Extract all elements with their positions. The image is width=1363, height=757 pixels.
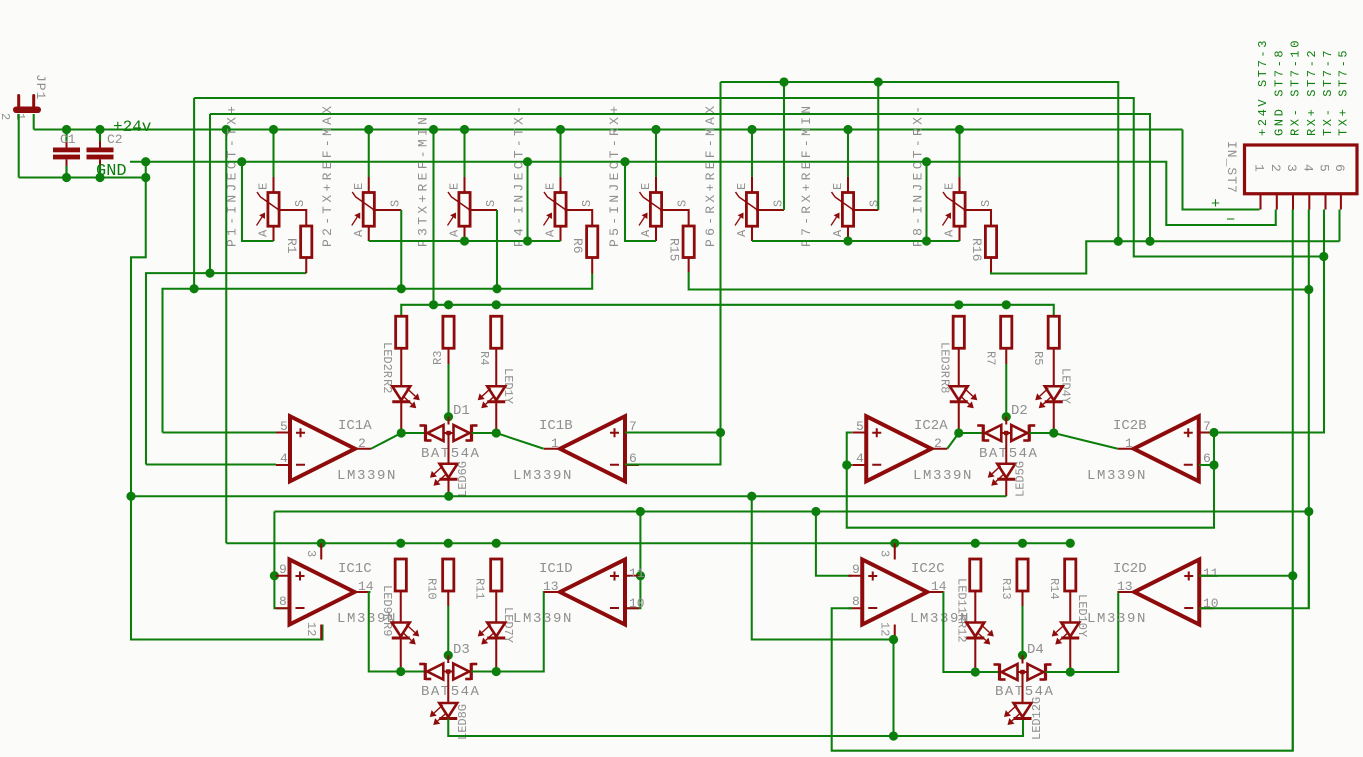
net label RX- ST7-10 [1289,38,1303,136]
junction dot D4 right node [1066,667,1075,676]
label D2 [1011,403,1028,419]
junction dot on GND rail [620,157,629,166]
wire P4.E pin stub [559,177,561,193]
svg-text:LED11R: LED11R [955,578,969,621]
svg-text:5: 5 [856,419,864,434]
svg-text:+24V ST7-3: +24V ST7-3 [1256,38,1270,136]
label IC2A [914,418,948,434]
svg-text:13: 13 [1117,579,1133,594]
dual diode D4 [994,664,1052,681]
svg-text:4: 4 [280,451,288,466]
wire P5.E to +24v rail [655,130,657,178]
comparator IC2B [1118,416,1213,481]
wire P8.E pin stub [958,177,960,193]
pin label 8 of IC2C [852,594,860,609]
wire IC2A pin4 wire [847,464,852,466]
LED LED3R [950,386,978,408]
junction dot D3 centre stub [444,651,453,660]
junction dot LED6G on GND bus [444,492,453,501]
svg-text:+: + [1211,196,1220,213]
svg-text:LED12G: LED12G [1030,697,1044,740]
wire P8.A pin stub [958,226,960,241]
pin label 2 of IC2A [934,436,942,451]
junction dot L3 R9 [396,539,405,548]
junction dot D3 right node [492,667,501,676]
pin label 14 of IC1C [358,579,374,594]
label R16 [969,238,984,261]
wire wiper bus drop to IC1B [719,82,721,433]
LED LED5G [988,464,1016,486]
wire P6.E pin stub [751,177,753,193]
wire R11 to LED7Y [495,591,497,623]
wire D4 to LED12G [1021,672,1023,703]
pin label S of P5 [676,200,690,207]
pin label S of P8 [979,200,993,207]
pin label 3 of IC1C [304,550,318,557]
comparator IC2C [848,560,943,625]
resistor R6 [587,226,598,258]
svg-text:12: 12 [878,622,892,636]
svg-text:LED2R: LED2R [380,342,394,378]
svg-text:13: 13 [543,579,559,594]
wire D1 to LED6G [447,433,449,464]
LED LED1Y [478,386,506,408]
wire P2.S drop [373,210,402,289]
wire D3 centre stub [447,655,449,663]
wire IC1C output to D3 [369,592,401,672]
svg-text:IC2B: IC2B [1113,418,1147,434]
wire P4.E to +24v rail [559,130,561,178]
pin label 2 of IN_ST7 [1268,164,1283,172]
label LED5G [1014,461,1028,497]
svg-text:R14: R14 [1047,578,1061,600]
wire P2.E pin stub [368,177,370,193]
wire IC2D pin10 to RX+ drop [1199,512,1309,609]
junction dot on +24v rail [460,125,469,134]
svg-text:E: E [735,183,749,190]
pin label S of P7 [868,200,882,207]
wire D4 right link [1046,671,1071,673]
wire P8.S to R16 [964,210,992,226]
junction dot A bus to GND x926 [922,236,931,245]
junction dot on GND rail [141,157,150,166]
junction dot L3 R12 [971,539,980,548]
svg-text:R5: R5 [1031,351,1045,365]
pin label 6 of IC2B [1203,451,1211,466]
wire P8.E to +24v rail [958,130,960,178]
svg-text:R1: R1 [284,238,299,254]
wire P2.E to +24v rail [368,130,370,178]
net label +24v [113,118,152,136]
pin label 9 of IC2C [852,562,860,577]
wire R12 to LED11R [974,591,976,623]
label LED3R [938,342,952,378]
wire R16 bottom stub [990,258,992,273]
pin label 1 of IC1B [551,436,559,451]
label LED7Y [501,607,515,643]
resistor R10 [443,559,454,591]
LED LED7Y [478,623,506,645]
resistor R14 [1065,559,1076,591]
svg-text:S: S [388,200,402,207]
svg-text:1: 1 [551,436,559,451]
wire IC2B pin7 to TX- riser [1213,257,1324,433]
svg-text:LED8G: LED8G [456,704,470,740]
label LED4Y [1059,368,1073,404]
label LM339N of IC2B [1087,468,1147,484]
label LED10Y [1075,594,1089,637]
comparator IC2D [1118,560,1213,625]
junction dot IC2C pin12 [889,635,898,644]
svg-text:6: 6 [1332,164,1347,172]
wire TX- drop x194 [193,98,195,289]
label R13 [999,578,1013,600]
junction dot L1 x751 [747,492,756,501]
junction dot D2 left node [954,428,963,437]
junction dot on +24v rail [955,125,964,134]
potentiometer P2 [352,192,375,226]
junction dot on cap ground line [141,173,150,182]
label R5 [1031,351,1045,365]
LED LED8G [430,703,458,725]
label IN_ST7 [1224,141,1239,194]
label LED6G [456,461,470,497]
connector pin 6 stub [1340,194,1342,210]
svg-text:P8-INJECT-RX-: P8-INJECT-RX- [911,103,926,247]
label IC1B [539,418,573,434]
svg-text:E: E [544,183,558,190]
pin label E of P1 [257,183,271,190]
label R9 [380,622,394,636]
junction dot D2 centre stub [1002,412,1011,421]
svg-text:E: E [943,183,957,190]
pin label 1 of JP1 [13,113,27,120]
pin label S of P6 [772,200,786,207]
svg-text:1: 1 [1125,436,1133,451]
wire P7.A pin stub [847,226,849,241]
pin label E of P6 [735,183,749,190]
junction dot y241 x1150 [1145,237,1154,246]
svg-text:S: S [676,200,690,207]
wire IC2A pin5 tie [847,433,852,466]
pin label 11 of IC1D [629,566,645,581]
wire LED1Y to D1 node [495,402,497,433]
wire R16 to TX+ bus link [991,241,1340,273]
svg-text:9: 9 [279,562,287,577]
resistor R7 [1001,316,1012,348]
pin label S of P2 [388,200,402,207]
potentiometer P5 [639,192,662,226]
label P4-INJECT-TX- [512,103,527,247]
wire IC1D pin10 tie [625,576,640,609]
label R6 [570,238,585,254]
wire IC1C pin3 stub [320,543,322,559]
svg-text:P7-RX+REF-MIN: P7-RX+REF-MIN [799,103,814,247]
svg-text:P3TX+REF-MIN: P3TX+REF-MIN [416,114,431,247]
svg-text:BAT54A: BAT54A [421,684,480,700]
wire R1/TX+ line y=273 [146,273,306,464]
pin label 10 of IC2D [1203,596,1219,611]
label BAT54A of D2 [979,446,1038,462]
label BAT54A of D4 [995,684,1054,700]
junction dot D1 centre stub [444,412,453,421]
label LM339N of IC2C [910,611,970,627]
wire P6.E to +24v rail [751,130,753,178]
wire IC1B pin6 tie [625,433,721,465]
junction dot TX- line P3.S [492,284,501,293]
svg-text:5: 5 [1317,164,1332,172]
svg-text:RX- ST7-10: RX- ST7-10 [1289,38,1303,136]
label LM339N of IC1C [337,611,397,627]
label LM339N of IC1A [337,468,397,484]
svg-text:D1: D1 [453,403,470,419]
wire P1.S to R1 [278,210,307,226]
wire GND bus L1 [131,495,1006,497]
svg-text:3: 3 [878,550,892,557]
wire R7 to D2 centre [1005,348,1007,417]
wire D2 right link [1029,432,1054,434]
pin label 5 of IC2A [856,419,864,434]
wire bus TX+ (y=114) [210,114,1150,241]
pin label 6 of IN_ST7 [1332,164,1347,172]
wire LED7Y to D3 node [495,639,497,672]
potentiometer P8 [943,192,966,226]
svg-text:R6: R6 [570,238,585,254]
connector pin 4 stub [1308,194,1310,210]
label JP1 [33,74,48,100]
svg-text:A: A [943,229,957,237]
svg-text:1: 1 [13,113,27,120]
pin label E of P5 [639,183,653,190]
resistor R11 [491,559,502,591]
label IC2B [1113,418,1147,434]
svg-text:A: A [639,229,653,237]
junction dot D4 left node [971,667,980,676]
junction dot L1 at GND drop [126,492,135,501]
svg-text:IC1D: IC1D [539,561,573,577]
label C1 [60,132,76,147]
label LM339N of IC2D [1087,611,1147,627]
svg-text:S: S [484,200,498,207]
label LED1Y [501,368,515,404]
wire input bus L2 [274,510,1308,512]
pin label 13 of IC2D [1117,579,1133,594]
comparator IC1D [544,560,639,625]
wire R9 to LED9R [400,591,402,623]
wire P5.A pin stub [655,226,657,241]
wire L2 drop to IC1C inputs [273,512,275,576]
svg-text:R15: R15 [667,238,682,261]
pin label 12 of IC2C [878,622,892,636]
junction dot pin5 at TX- link [1319,252,1328,261]
wire IC1C pin8 tie [274,576,289,609]
svg-text:4: 4 [1300,164,1315,172]
wire D4 left link [975,671,999,673]
wire IC1A output diagonal [371,433,401,449]
pin label 9 of IC1C [279,562,287,577]
junction dot on +24v rail [429,125,438,134]
svg-text:P4-INJECT-TX-: P4-INJECT-TX- [512,103,527,247]
svg-text:8: 8 [852,594,860,609]
label BAT54A of D3 [421,684,480,700]
svg-text:GND ST7-8: GND ST7-8 [1272,48,1286,136]
wire D2 to LED5G [1005,433,1007,464]
svg-text:E: E [639,183,653,190]
resistor R5 [1048,316,1059,348]
junction dot IC2B pin7 [1209,428,1218,437]
label IC1A [338,418,372,434]
label P3TX+REF-MIN [416,114,431,247]
junction dot IC2B pin6 [1209,460,1218,469]
wire LED2R to D1 node [400,402,402,433]
svg-text:IC1C: IC1C [338,561,372,577]
svg-text:R10: R10 [425,578,439,600]
wire P7.E to +24v rail [847,130,849,178]
net label +24V ST7-3 [1256,38,1270,136]
junction dot D2 right node [1049,428,1058,437]
wire bus wipers (y=82) [721,82,1119,241]
pin label A of P8 [943,229,957,237]
comparator IC1C [276,560,371,625]
net label TX- ST7-7 [1321,48,1335,136]
wire IC2C pin12 to LED return [892,640,894,737]
svg-text:TX+ ST7-5: TX+ ST7-5 [1336,48,1350,136]
LED LED2R [392,386,420,408]
wire P6.A pin stub [751,226,753,241]
wire D4 centre stub [1021,655,1023,663]
wire R1 bottom stub [305,258,307,274]
wire A bus P6-P8 [752,240,960,242]
svg-text:R11: R11 [473,578,487,600]
resistor R2 [396,316,407,348]
label R3 [431,351,445,365]
svg-text:LED3R: LED3R [938,342,952,378]
wire R10 to D3 centre [447,591,449,655]
svg-text:S: S [580,200,594,207]
pin label A of P4 [544,229,558,237]
wire RX+ line R15 to connector pin4 [689,272,1309,290]
LED LED4Y [1035,386,1063,408]
wire R5 to LED4Y [1053,348,1055,386]
junction dot on cap ground line [62,173,71,182]
svg-text:TX- ST7-7: TX- ST7-7 [1321,48,1335,136]
pin label E of P4 [544,183,558,190]
capacitor C2 [87,130,114,178]
wire TX- line y=288.75 to R6 [163,274,593,433]
svg-text:10: 10 [629,596,645,611]
label BAT54A of D1 [421,446,480,462]
resistor R16 [985,226,996,258]
resistor R3 [443,316,454,348]
junction dot on +24v rail [364,125,373,134]
pin label 5 of IC1A [280,419,288,434]
pin label A of P1 [257,229,271,237]
svg-text:E: E [831,183,845,190]
resistor R8 [953,316,964,348]
net label + at connector [1211,196,1220,213]
svg-text:LM339N: LM339N [513,468,573,484]
label IC2C [911,561,945,577]
pin label E of P3 [448,183,462,190]
svg-text:P5-INJECT-RX+: P5-INJECT-RX+ [607,103,622,247]
wire R8 to LED3R [958,348,960,386]
junction dot IC1D pin11 [636,571,645,580]
LED LED6G [430,464,458,486]
svg-text:S: S [979,200,993,207]
svg-text:JP1: JP1 [33,74,48,100]
pin label 8 of IC1C [279,594,287,609]
wire LED9R to D3 node [400,639,402,672]
pin label S of P3 [484,200,498,207]
svg-text:2: 2 [358,436,366,451]
junction dot P7.A [843,236,852,245]
label LM339N of IC1B [513,468,573,484]
svg-text:A: A [831,229,845,237]
wire LED10Y to D4 node [1069,639,1071,673]
svg-text:LM339N: LM339N [1087,611,1147,627]
junction dot IC2A pin4 node [842,460,851,469]
connector pin 2 stub [1276,194,1278,210]
svg-text:D2: D2 [1011,403,1028,419]
svg-text:RX+ ST7-2: RX+ ST7-2 [1305,48,1319,136]
label IC2D [1113,561,1147,577]
wire P4.A pin stub [559,226,561,241]
svg-text:P1-INJECT-TX+: P1-INJECT-TX+ [225,103,240,247]
wire +24v rail [34,128,1183,130]
pin label 4 of IC2A [856,451,864,466]
wire P2.A pin stub [368,226,370,241]
net label TX+ ST7-5 [1336,48,1350,136]
svg-text:LM339N: LM339N [337,468,397,484]
svg-text:R3: R3 [431,351,445,365]
junction dot L2 x815 [811,507,820,516]
label P8-INJECT-RX- [911,103,926,247]
svg-text:IC2D: IC2D [1113,561,1147,577]
wire IC1A pin4 (TX+) [146,463,276,465]
label R10 [425,578,439,600]
svg-text:C2: C2 [107,132,123,147]
pin label A of P7 [831,229,845,237]
connector pin 1 stub [1259,194,1261,210]
wire IC2C pin12 stub [894,625,896,640]
junction dot on cap ground line [95,173,104,182]
junction dot D1 left node [397,428,406,437]
svg-text:2: 2 [934,436,942,451]
pin label A of P5 [639,229,653,237]
junction dot rail x433 [429,300,438,309]
label IC1D [539,561,573,577]
wire IC2C output to D4 [943,592,975,672]
svg-text:12: 12 [304,622,318,636]
wire D3 left link [401,670,426,672]
wire pin6 TX+ drop [1338,210,1340,242]
label R8 [938,379,952,393]
label LM339N of IC1D [513,611,573,627]
wire D4 to IC2D output [1070,592,1119,672]
wire +24v bus L3 [226,542,1070,544]
wire L2 drop to IC1D pin11 [639,512,641,576]
net label - at connector [1226,212,1235,229]
pin label S of P4 [580,200,594,207]
potentiometer P4 [544,192,567,226]
comparator IC1A [276,416,371,481]
svg-text:14: 14 [358,579,374,594]
LED LED10Y [1052,623,1080,645]
wire pin4 RX+ drop [1308,210,1310,609]
pin label 7 of IC1B [629,419,637,434]
svg-text:A: A [257,229,271,237]
wire GND drop x527 [526,162,528,241]
